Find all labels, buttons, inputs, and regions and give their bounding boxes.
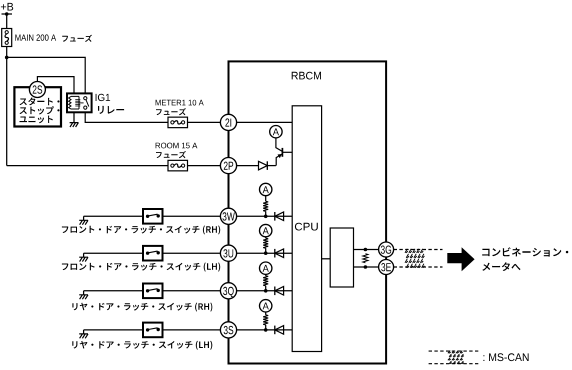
node junction +B branch [5,56,9,60]
connector 3Q [220,283,236,299]
label 3E [381,263,391,271]
resistor pull-up 3U [263,238,268,248]
connector 3G [379,242,394,257]
connector 3W [220,208,236,224]
label MS-CAN [483,353,528,361]
switch door latch 3U [143,246,163,261]
connector 3U [220,245,236,261]
label door latch switch 3S [72,341,212,350]
connector 3E [379,260,394,275]
label ROOM 15 A [156,143,198,149]
legend MS-CAN dashed bottom [429,363,479,365]
ic CPU box [292,106,321,352]
node net-A circle 3S [260,300,272,312]
wire switch to connector 3W [163,215,229,217]
label net-A transistor [273,128,279,135]
fuse ROOM 15A [168,160,188,171]
diode D1 on 2P line [266,161,268,170]
wire A-net stub 3Q [265,274,267,275]
label 2I [225,118,231,126]
switch door latch 3Q [143,284,163,299]
resistor CAN terminator [363,254,368,263]
wire ground to switch 3U [84,252,143,254]
label 2P [224,162,233,170]
label 3W [223,212,235,220]
wire ground to switch 3Q [84,290,143,292]
diode row 3Q [274,287,276,296]
resistor pull-up 3S [263,315,268,325]
wire diode to transistor [267,165,276,167]
wire switch to connector 3U [163,252,229,254]
wire branch to IG1 relay switch [7,57,86,93]
label door latch switch 3U [62,263,220,272]
label 3S [224,326,234,334]
relay IG1 switch [84,97,87,100]
label door latch switch 3Q [72,303,212,312]
label 3U [223,249,233,257]
label combination meter line1 [482,247,568,256]
wire 3W to CPU [229,215,293,217]
node net-A circle 3W [260,183,272,195]
label net-A 3S [263,303,269,310]
wire +B down to MAIN fuse [6,14,8,29]
wire A-net stub 3U [265,237,267,238]
legend MS-CAN dashed top [429,350,479,352]
node +B terminal dot [5,12,9,16]
wire 2S to IG1 coil [37,77,74,94]
fuse METER1 10A [168,117,188,128]
relay IG1 coil [71,96,79,109]
label ROOM fuse jp [156,151,186,158]
unit start-stop box [14,87,61,126]
label MAIN 200 A [15,34,56,40]
wire switch to connector 3S [163,329,229,331]
wire bottom loop to ROOM fuse [7,165,168,167]
resistor pull-up 3W [263,201,268,211]
node junction row 3Q [264,289,268,293]
wire METER1 fuse to 2I [188,121,229,123]
wire 2P to diode [229,165,259,167]
switch door latch 3W [143,209,163,224]
node net-A circle 3U [260,224,272,236]
resistor pull-up 3Q [263,276,268,286]
label combination meter line2 [482,262,520,271]
label IG1 relay jp [98,106,124,114]
label 2S [33,85,43,93]
wire CAN box to 3G [354,249,387,251]
relay IG1 box [67,93,92,112]
connector 2S [29,82,45,98]
wire IG1 coil to ground [73,112,75,122]
wire 3S to CPU [229,329,293,331]
ic CAN transceiver box [330,228,353,287]
wire A-net stub 3S [265,312,267,315]
wire 2I to CPU [229,121,293,123]
label start-stop line1 [20,98,60,106]
node net-A transistor [270,126,282,138]
node junction row 3S [264,328,268,332]
label net-A 3U [263,227,269,234]
wire 3U to CPU [229,252,293,254]
label RBCM [292,72,321,80]
wire CAN box to 3E [354,266,387,268]
module RBCM box [229,61,387,363]
switch door latch 3S [143,323,163,338]
label CPU [295,223,318,231]
ground door latch switch 3W [79,220,88,224]
wire switch to connector 3Q [163,290,229,292]
twisted-pair MS-CAN [405,249,424,268]
label net-A 3Q [263,265,269,272]
node junction 3E line [364,265,368,269]
diode row 3S [274,326,276,335]
wire A-net stub 3W [265,196,267,202]
node junction row 3U [264,251,268,255]
wire ground to switch 3S [84,329,143,331]
label MAIN fuse jp [62,35,92,42]
wire +B terminal bar [2,13,13,15]
wire MAIN fuse to bottom loop [6,47,8,166]
wire 3Q to CPU [229,290,293,292]
wire ground stub row 3S [83,330,85,334]
diode row 3U [274,249,276,258]
transistor Q1 [276,154,282,166]
wire ground stub row 3W [83,216,85,220]
node net-A circle 3Q [260,262,272,274]
ground door latch switch 3S [79,334,88,338]
legend twisted-pair [448,351,464,364]
ground door latch switch 3Q [79,295,88,299]
label +B [1,3,13,11]
wire ground to switch 3W [84,215,143,217]
wire CPU to CAN box [322,258,331,260]
wire ground stub row 3Q [83,291,85,295]
node junction row 3W [264,215,268,219]
diode row 3W [274,212,276,221]
label start-stop line3 [20,116,53,124]
label IG1 [96,94,111,101]
ground IG1 relay [70,123,79,127]
label METER1 fuse jp [156,108,186,115]
label door latch switch 3W [62,226,220,235]
connector 2P [220,158,236,174]
wire ground stub row 3U [83,253,85,257]
label start-stop line2 [20,106,60,114]
label METER1 10 A [156,100,204,106]
connector 2I [220,114,236,130]
label net-A 3W [263,186,269,193]
connector 3S [220,322,236,338]
node junction 3G line [364,248,368,252]
wire IG1 switch out to METER1 fuse [85,112,168,122]
wire MS-CAN high dashed [394,249,443,251]
ground door latch switch 3U [79,257,88,261]
wire ROOM fuse to 2P [188,165,229,167]
fuse MAIN 200A [2,29,12,47]
label 3Q [223,287,234,297]
arrow to combination meter [447,247,474,271]
wire MS-CAN low dashed [394,266,443,268]
label 3G [381,246,391,254]
